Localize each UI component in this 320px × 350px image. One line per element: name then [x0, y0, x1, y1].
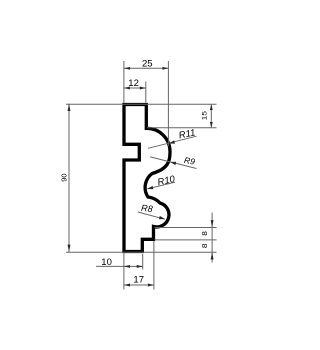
arrow 17 right	[148, 284, 154, 287]
leader R11	[148, 136, 197, 148]
svg-text:25: 25	[142, 58, 153, 69]
arrow leader R10	[147, 186, 153, 189]
svg-text:12: 12	[128, 78, 139, 89]
extension line bottom (90/8)	[66, 251, 217, 253]
extension line step1 (8 top)	[155, 227, 217, 229]
svg-text:8: 8	[201, 243, 209, 248]
arrow 10 right	[137, 265, 143, 268]
arrow 10 left	[124, 265, 130, 268]
svg-text:R11: R11	[178, 127, 197, 141]
arrow 90 bottom	[68, 245, 71, 252]
svg-text:17: 17	[133, 274, 144, 285]
extension line 12 right	[145, 82, 147, 103]
arrow 25 left	[124, 67, 130, 70]
svg-text:90: 90	[60, 173, 69, 181]
extension line R11 start (15 bottom)	[147, 127, 217, 129]
arrow 25 right	[162, 67, 168, 70]
extension line top (90/15)	[66, 103, 217, 105]
dim line 12	[124, 87, 146, 89]
arrow 8 top (points down)	[211, 220, 214, 227]
arrow leader R9	[170, 162, 176, 165]
arrow 15 top	[210, 104, 213, 110]
dim line 15	[210, 104, 212, 128]
svg-text:R10: R10	[157, 174, 177, 189]
arrow 90 top	[68, 104, 71, 111]
extension line left bottom (10/17)	[123, 253, 125, 290]
arrow 17 left	[124, 284, 130, 287]
dim line 25	[124, 67, 168, 69]
dim line 8+8	[211, 213, 213, 263]
arrow 12 right	[140, 87, 146, 90]
leader R9	[150, 157, 196, 169]
arrow leader R11	[169, 140, 175, 143]
extension line 25 right	[167, 61, 169, 146]
arrow 15 bottom	[210, 122, 213, 128]
svg-text:10: 10	[101, 257, 112, 268]
extension line left top (25/12)	[123, 61, 125, 103]
svg-text:R8: R8	[141, 203, 153, 214]
svg-text:15: 15	[201, 111, 209, 120]
arrow leader R8	[159, 216, 165, 219]
extension line 10 right	[142, 254, 144, 270]
extension line 17 right	[153, 241, 155, 290]
dim line 17	[124, 284, 154, 286]
arrow 12 left	[124, 87, 130, 90]
dim line 10	[96, 265, 143, 267]
leader R8	[138, 212, 165, 219]
dim line 90	[68, 104, 70, 252]
extension line step2 (8 middle)	[155, 239, 217, 241]
leader R10	[147, 182, 175, 189]
arrow 8 bottom (points up)	[211, 252, 214, 259]
svg-text:R9: R9	[183, 155, 196, 167]
svg-text:8: 8	[201, 231, 209, 236]
moulding profile outline	[124, 105, 170, 252]
